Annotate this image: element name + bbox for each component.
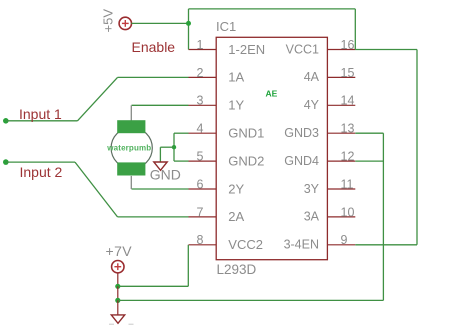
wire between junctions xyxy=(117,286,119,300)
wire pin 16 to right xyxy=(355,49,417,51)
junction dot gnd rail xyxy=(115,298,120,303)
svg-text:1A: 1A xyxy=(228,70,244,85)
svg-text:3Y: 3Y xyxy=(304,182,320,196)
motor M1 bottom terminal block xyxy=(117,162,145,175)
wire junction to gnd xyxy=(160,146,174,148)
svg-text:2: 2 xyxy=(197,66,204,80)
svg-text:GND1: GND1 xyxy=(228,126,264,141)
junction dot GND1-GND2 xyxy=(172,145,176,149)
svg-text:4Y: 4Y xyxy=(304,98,320,112)
svg-text:waterpumb: waterpumb xyxy=(106,143,151,152)
pin 6 stub xyxy=(189,188,217,190)
pin 4 stub xyxy=(189,132,217,134)
junction dot +7V xyxy=(115,284,120,289)
wire Input 1 horizontal xyxy=(6,120,78,122)
wire gnd rail bottom xyxy=(118,299,384,301)
wire junction vertical to pin 1 xyxy=(188,9,190,50)
svg-text:1-2EN: 1-2EN xyxy=(228,42,265,57)
wire pin4-pin5 vertical xyxy=(173,133,175,161)
svg-text:1: 1 xyxy=(197,38,204,52)
wire pin 13 to gnd rail xyxy=(355,132,383,134)
svg-text:12: 12 xyxy=(341,150,355,164)
svg-text:+7V: +7V xyxy=(106,243,133,259)
pin 11 stub xyxy=(327,188,355,190)
svg-text:1Y: 1Y xyxy=(228,98,244,113)
svg-text:AE: AE xyxy=(266,88,278,98)
svg-text:10: 10 xyxy=(341,205,355,219)
svg-text:5: 5 xyxy=(197,150,204,164)
wire down to pin 16 xyxy=(354,9,356,50)
wire Input 2 diagonal xyxy=(75,162,118,217)
svg-text:9: 9 xyxy=(341,233,348,247)
pin 8 stub xyxy=(189,244,217,246)
svg-text:7: 7 xyxy=(197,205,204,219)
junction dot +5V xyxy=(186,21,191,26)
wire pin 12 to gnd rail xyxy=(355,160,383,162)
svg-text:15: 15 xyxy=(341,66,355,80)
wire gnd drop xyxy=(159,147,161,162)
motor M1 top terminal block xyxy=(117,120,145,133)
svg-text:IC1: IC1 xyxy=(216,19,236,34)
supply +7V symbol xyxy=(112,261,124,273)
svg-text:GND2: GND2 xyxy=(228,153,264,168)
wire pin 6 horizontal xyxy=(132,188,189,190)
pin 12 stub xyxy=(327,160,355,162)
svg-text:GND4: GND4 xyxy=(284,154,319,168)
pin 14 stub xyxy=(327,104,355,106)
svg-text:11: 11 xyxy=(341,177,354,191)
wire Input 2 to pin 7 xyxy=(118,216,189,218)
svg-text:4A: 4A xyxy=(304,70,320,84)
wire to pin 9 xyxy=(355,244,417,246)
wire pin 5 horizontal xyxy=(174,160,189,162)
pin 13 stub xyxy=(327,132,355,134)
svg-text:3A: 3A xyxy=(304,210,320,224)
wire Input 1 diagonal xyxy=(78,77,118,120)
wire +7V pin down xyxy=(117,273,119,287)
pin 2 stub xyxy=(189,76,217,78)
wire pin 4 horizontal xyxy=(174,132,189,134)
pin 15 stub xyxy=(327,76,355,78)
svg-text:Input 2: Input 2 xyxy=(20,164,63,180)
wire pin 8 down xyxy=(187,245,189,286)
svg-text:13: 13 xyxy=(341,122,355,136)
svg-text:16: 16 xyxy=(341,38,355,52)
ground bottom tick right xyxy=(129,323,134,325)
svg-text:3-4EN: 3-4EN xyxy=(284,238,319,252)
svg-text:VCC1: VCC1 xyxy=(286,42,319,56)
pin 3 stub xyxy=(189,104,217,106)
pin 5 stub xyxy=(189,160,217,162)
svg-text:L293D: L293D xyxy=(217,262,257,277)
svg-text:VCC2: VCC2 xyxy=(228,237,263,252)
ground symbol mid xyxy=(154,162,167,170)
svg-text:6: 6 xyxy=(197,177,204,191)
wire pin 3 down to motor xyxy=(130,105,132,120)
pin 7 stub xyxy=(189,216,217,218)
svg-text:GND3: GND3 xyxy=(284,126,319,140)
wire Input 2 horizontal xyxy=(6,161,75,163)
wire bottom gnd pin xyxy=(117,300,119,315)
wire gnd rail up right xyxy=(382,133,384,300)
supply +5V symbol xyxy=(119,17,131,29)
pin 16 stub xyxy=(327,49,355,51)
motor M1 waterpumb circle xyxy=(111,127,152,168)
pin 1 stub xyxy=(189,49,217,51)
node Input 1 terminal xyxy=(3,118,9,124)
pin 9 stub xyxy=(327,244,355,246)
wire right vertical VCC1 to 3-4EN xyxy=(416,50,418,245)
svg-text:Input 1: Input 1 xyxy=(19,106,62,122)
svg-text:GND: GND xyxy=(150,166,181,182)
wire pin 3 horizontal xyxy=(132,104,189,106)
ground bottom tick left xyxy=(109,323,114,325)
pin 10 stub xyxy=(327,216,355,218)
svg-text:3: 3 xyxy=(197,94,204,108)
wire motor bottom to pin 6 xyxy=(130,176,132,189)
svg-text:2Y: 2Y xyxy=(228,181,244,196)
svg-text:4: 4 xyxy=(197,122,204,136)
svg-text:2A: 2A xyxy=(228,209,244,224)
ground symbol bottom xyxy=(111,315,124,323)
node Input 2 terminal xyxy=(3,159,9,165)
wire Input 1 to pin 2 xyxy=(118,76,189,78)
svg-text:+5V: +5V xyxy=(101,9,116,33)
svg-text:Enable: Enable xyxy=(132,39,176,55)
wire top rail xyxy=(189,8,356,10)
wire pin 8 rail to +7V xyxy=(118,285,189,287)
svg-text:14: 14 xyxy=(341,94,355,108)
IC IC1 body xyxy=(216,37,327,259)
svg-text:8: 8 xyxy=(197,233,204,247)
wire +5V to junction xyxy=(131,22,188,24)
